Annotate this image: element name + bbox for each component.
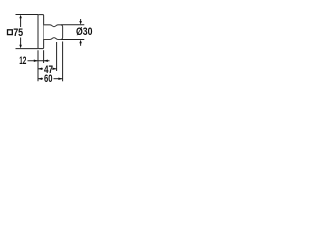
- svg-text:Ø30: Ø30: [76, 26, 93, 38]
- svg-text:12: 12: [19, 55, 26, 67]
- svg-text:60: 60: [44, 73, 53, 85]
- svg-text:75: 75: [13, 27, 23, 39]
